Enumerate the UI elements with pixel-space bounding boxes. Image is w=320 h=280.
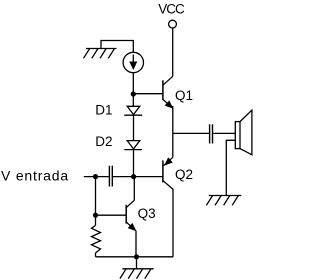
VCC terminal circle <box>169 20 177 28</box>
ground (bottom) <box>120 269 154 279</box>
svg-text:D1: D1 <box>95 102 112 117</box>
wire Q3 collector to node <box>133 177 135 201</box>
diode D2 <box>124 141 142 150</box>
wire Q2 collector to bottom rail <box>172 189 174 257</box>
wire node to ground <box>136 257 138 269</box>
node (D2 / C1 / Q2 base / Q3 collector) <box>131 174 136 179</box>
speaker LS1 <box>235 110 252 155</box>
transistor Q2 <box>163 157 173 189</box>
output wire to capacitor <box>173 132 209 134</box>
wire current source to D1 <box>132 73 134 107</box>
wire input to capacitor <box>84 176 109 178</box>
bottom rail wire <box>96 256 174 258</box>
capacitor C1 (input coupling) <box>109 166 112 187</box>
wire Q1 emitter to Q2 emitter <box>172 106 174 157</box>
wire ground to current source <box>101 41 133 53</box>
node (current source / D1 / Q1 base) <box>131 91 136 96</box>
svg-text:V entrada: V entrada <box>1 168 69 184</box>
wire D2 to input node <box>133 150 135 177</box>
wire speaker to ground <box>226 140 235 195</box>
capacitor C2 (output coupling) <box>210 124 213 143</box>
wire resistor to bottom rail <box>95 253 97 257</box>
svg-text:D2: D2 <box>95 134 112 149</box>
node (input / R / C1) <box>93 174 98 179</box>
svg-text:Q3: Q3 <box>138 206 156 221</box>
wire capacitor to Q2 base <box>113 176 163 178</box>
wire node to Q1 base <box>133 93 163 95</box>
transistor Q1 <box>163 76 173 108</box>
svg-text:Q1: Q1 <box>175 88 193 103</box>
wire D1 to D2 <box>133 115 135 140</box>
wire Q3 emitter down <box>135 231 137 257</box>
resistor R1 <box>92 225 101 253</box>
wire capacitor to speaker <box>213 132 235 134</box>
transistor Q3 <box>126 200 136 231</box>
current source I1 <box>123 52 143 72</box>
svg-text:VCC: VCC <box>158 2 185 17</box>
svg-text:Q2: Q2 <box>175 167 193 182</box>
node (bottom rail / ground) <box>134 254 139 259</box>
ground (top left) <box>84 49 117 59</box>
wire VCC to Q1 collector <box>172 29 174 77</box>
diode D1 <box>124 106 142 115</box>
node (Q3 base / R divider) <box>93 213 98 218</box>
wire input node down <box>95 177 97 226</box>
wire node to Q3 base <box>96 214 127 216</box>
ground (speaker) <box>206 196 241 206</box>
